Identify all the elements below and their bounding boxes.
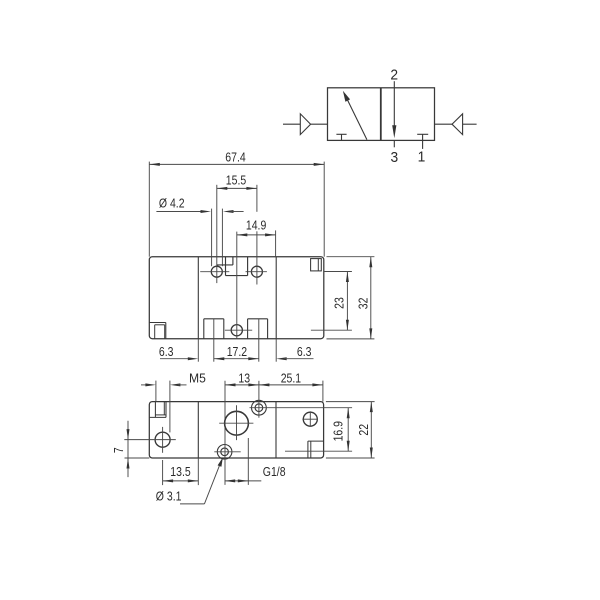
hole 4.2 edge extension lines	[211, 209, 213, 267]
flow path diagonal arrow (left square)	[347, 99, 367, 140]
svg-text:7: 7	[113, 447, 126, 453]
mounting hole left (4.2)	[211, 266, 222, 277]
port 1 blocked seat (T symbol)	[417, 133, 428, 135]
svg-text:3: 3	[390, 149, 398, 166]
dim M5 arrows	[141, 384, 147, 386]
flow path arrow 2-3 (right square)	[393, 81, 395, 127]
dim 6.3 left	[160, 358, 190, 360]
tab left center line	[213, 319, 215, 362]
right hole center cross	[302, 418, 318, 420]
valve position divider	[380, 88, 382, 141]
svg-text:17.2: 17.2	[227, 346, 247, 359]
dim 32 extension lines	[327, 256, 375, 258]
dim 25.1	[259, 384, 323, 386]
dim 7 lower extension	[125, 457, 150, 459]
svg-text:14.9: 14.9	[246, 220, 266, 233]
svg-text:32: 32	[358, 298, 371, 310]
svg-text:2: 2	[390, 67, 398, 84]
dim 32	[370, 257, 372, 339]
top-left port square	[154, 402, 156, 418]
bottom-right port square	[307, 441, 309, 458]
hole 3.1 leader line	[180, 503, 204, 505]
bottom-left corner port square	[149, 322, 166, 324]
pilot hole top	[255, 404, 263, 412]
G1/8 center cross	[219, 422, 253, 424]
top view left divider line	[197, 257, 199, 339]
M5 center extension below	[162, 460, 164, 485]
bottom view body outline	[149, 402, 323, 458]
port 1 stub below valve	[422, 140, 424, 149]
svg-text:16.9: 16.9	[333, 421, 346, 441]
svg-text:15.5: 15.5	[226, 175, 246, 188]
svg-text:1: 1	[418, 149, 426, 166]
svg-text:6.3: 6.3	[297, 346, 312, 359]
dim 14.9	[237, 234, 276, 236]
dim M5 extension lines	[155, 381, 157, 402]
dim 22	[370, 402, 372, 458]
port 3 stub below valve	[393, 140, 395, 147]
dim 67.4	[149, 163, 324, 165]
top-right corner port square	[311, 259, 322, 271]
svg-text:Ø 4.2: Ø 4.2	[159, 198, 185, 211]
M5 center cross	[124, 439, 176, 441]
right hole center cross	[246, 271, 267, 273]
bottom view right divider	[275, 402, 277, 458]
svg-text:Ø 3.1: Ø 3.1	[156, 491, 182, 504]
dim 16.9	[347, 408, 349, 452]
svg-text:67.4: 67.4	[225, 152, 246, 165]
bottom port tab right	[247, 319, 249, 339]
bottom hole center cross	[225, 329, 252, 331]
left hole center cross	[200, 271, 229, 273]
tab right center line	[258, 319, 260, 362]
dim 13.5 extension line	[197, 458, 199, 485]
dim 23 extension lines	[324, 271, 352, 273]
dim 15.5	[217, 187, 257, 189]
bottom port tab left	[203, 319, 205, 339]
svg-text:13: 13	[238, 373, 250, 386]
left pilot link to body	[311, 123, 328, 125]
dim 4.2 leader	[156, 211, 203, 213]
svg-text:22: 22	[358, 424, 371, 436]
recess step outline	[225, 257, 227, 276]
right hole	[303, 412, 317, 426]
right pilot line	[463, 123, 477, 125]
dim 13	[225, 384, 259, 386]
dim 25.1 extension line	[322, 381, 324, 402]
bottom center hole	[231, 325, 242, 336]
dim G1/8	[225, 480, 262, 482]
hole 3.1 center cross	[214, 451, 240, 453]
svg-text:23: 23	[334, 297, 347, 309]
svg-text:6.3: 6.3	[159, 346, 174, 359]
dim 16.9 lower extension	[285, 450, 352, 452]
counterbored hole 3.1	[221, 448, 229, 456]
dim G1/8 extension line	[247, 438, 249, 485]
mounting hole right (4.2)	[251, 266, 262, 277]
pilot hole center cross	[250, 407, 353, 409]
top view right divider line	[275, 257, 277, 339]
blocked port T in left square	[336, 133, 346, 135]
svg-text:13.5: 13.5	[170, 466, 190, 479]
svg-text:M5: M5	[189, 371, 206, 385]
dim 13.5	[163, 480, 199, 482]
M5 hole	[155, 432, 170, 447]
dim 67.4 extension lines	[148, 162, 150, 257]
svg-text:G1/8: G1/8	[263, 466, 286, 479]
bottom view left divider	[197, 402, 199, 458]
top view body outline	[149, 257, 323, 339]
left pilot line	[283, 123, 300, 125]
right pilot triangle	[452, 114, 463, 135]
right pilot link to body	[435, 123, 453, 125]
dim 7 line and arrows	[127, 421, 129, 477]
valve symbol body (2-position)	[328, 88, 435, 141]
dim 17.2	[214, 358, 259, 360]
left pilot triangle	[300, 114, 310, 135]
G1/8 port hole	[225, 411, 249, 435]
dim 14.9 extension line	[275, 230, 277, 256]
dim 23	[346, 272, 348, 331]
dim 6.3 right	[276, 357, 287, 360]
top view lower dim extension lines	[197, 339, 199, 362]
dim 22 extension lines	[326, 401, 375, 403]
svg-text:25.1: 25.1	[281, 373, 301, 386]
